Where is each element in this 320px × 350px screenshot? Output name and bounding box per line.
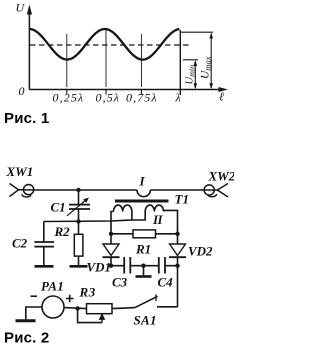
svg-text:I: I xyxy=(139,174,146,189)
capacitor C3 xyxy=(123,257,125,274)
tick 0.25λ xyxy=(66,90,68,95)
svg-text:Umax: Umax xyxy=(200,56,213,79)
y-axis xyxy=(28,14,30,90)
Umax reference line xyxy=(180,31,213,33)
tick 0.5λ xyxy=(105,90,107,95)
junction dot VD2 bottom xyxy=(175,264,179,268)
svg-text:0,75λ: 0,75λ xyxy=(126,91,158,105)
R3 wiper arrow xyxy=(101,319,103,323)
wire: secondary right end to VD2 branch xyxy=(164,210,178,244)
transformer secondary II xyxy=(114,205,164,220)
svg-text:Рис. 1: Рис. 1 xyxy=(4,110,49,127)
svg-text:R3: R3 xyxy=(79,285,96,300)
standing wave curve xyxy=(29,29,179,60)
svg-text:Umin: Umin xyxy=(185,65,197,85)
resistor R3 (variable) xyxy=(87,304,113,314)
svg-text:λ: λ xyxy=(175,91,182,105)
chassis ground under rail centre xyxy=(143,266,145,276)
svg-text:C2: C2 xyxy=(12,236,28,251)
switch SA1 fixed contact tick xyxy=(155,294,157,301)
junction dot C1/R2/tap xyxy=(76,219,80,223)
svg-text:R2: R2 xyxy=(54,224,71,239)
junction dot PA1/R3 xyxy=(75,306,79,310)
wire: wiper tied to left terminal xyxy=(78,308,102,322)
diode VD2 xyxy=(170,244,186,256)
Umin reference line xyxy=(183,59,198,61)
svg-text:C4: C4 xyxy=(158,275,174,290)
switch SA1 blade xyxy=(135,296,158,307)
sample line at λ xyxy=(179,30,181,95)
capacitor C4 xyxy=(158,257,160,274)
wire: secondary left end to VD1 branch xyxy=(111,212,114,245)
junction dot R1 right xyxy=(175,232,179,236)
resistor R1 xyxy=(111,233,133,235)
gridline 0.5λ xyxy=(105,29,107,88)
x-axis arrowhead xyxy=(219,87,229,92)
wire: right branch down from rail to switch xyxy=(177,266,179,307)
svg-text:XW1: XW1 xyxy=(6,164,34,179)
meter PA1 xyxy=(42,296,64,318)
svg-text:VD2: VD2 xyxy=(188,244,213,259)
wire: detector bottom rail xyxy=(111,265,178,267)
svg-text:C1: C1 xyxy=(51,200,66,215)
gridline 0.75λ xyxy=(140,34,142,87)
chassis ground under R2 xyxy=(70,265,88,268)
x-axis xyxy=(29,89,219,91)
wire: switch to right branch xyxy=(157,306,178,308)
svg-text:ℓ: ℓ xyxy=(219,90,225,104)
svg-text:T1: T1 xyxy=(175,192,189,207)
junction dot on feed line at C1 xyxy=(76,188,80,192)
wire: tap line from transformer centre tap to C1 (crosses VD1 branch) xyxy=(44,220,132,222)
tick 0.75λ xyxy=(140,90,142,95)
gridline 0.25λ xyxy=(66,34,68,87)
Umin dimension arrow xyxy=(194,62,196,89)
junction dot rail centre xyxy=(141,264,145,268)
transformer core xyxy=(115,200,169,203)
chassis ground at PA1 xyxy=(16,319,36,322)
diode VD1 xyxy=(103,244,119,256)
minus sign xyxy=(31,295,38,297)
svg-text:Рис. 2: Рис. 2 xyxy=(4,330,49,347)
svg-text:SA1: SA1 xyxy=(134,313,157,328)
junction dot VD1 bottom xyxy=(109,264,113,268)
wire: main feed line right xyxy=(150,189,204,191)
Umax dimension arrow xyxy=(210,34,212,88)
wire: R3 to switch xyxy=(112,308,135,309)
svg-text:0: 0 xyxy=(19,84,26,98)
resistor R2 xyxy=(78,222,80,235)
connector XW2 xyxy=(204,184,228,198)
dashed mean level xyxy=(30,44,190,46)
svg-text:XW2: XW2 xyxy=(208,169,235,184)
wire: down to C2 xyxy=(43,222,45,243)
wire: PA1 right to R3 xyxy=(64,308,87,309)
capacitor C1 (variable) xyxy=(78,190,80,205)
transformer T1 primary half-loop I xyxy=(137,190,150,197)
capacitor C2 xyxy=(34,241,54,243)
svg-text:R1: R1 xyxy=(135,242,151,257)
svg-text:PA1: PA1 xyxy=(41,279,64,294)
svg-text:0,25λ: 0,25λ xyxy=(53,91,85,105)
svg-text:VD1: VD1 xyxy=(87,260,112,275)
wire: main feed line left xyxy=(35,189,137,191)
svg-text:U: U xyxy=(16,1,26,15)
svg-text:II: II xyxy=(152,212,164,227)
chassis ground under C2 xyxy=(35,265,54,268)
y-axis arrowhead xyxy=(27,5,32,15)
plus sign xyxy=(66,295,74,302)
wire: PA1 left to chassis xyxy=(26,307,42,320)
connector XW1 xyxy=(10,184,36,198)
svg-text:C3: C3 xyxy=(112,275,128,290)
junction dot R1 left xyxy=(109,232,113,236)
svg-text:0,5λ: 0,5λ xyxy=(96,91,121,105)
